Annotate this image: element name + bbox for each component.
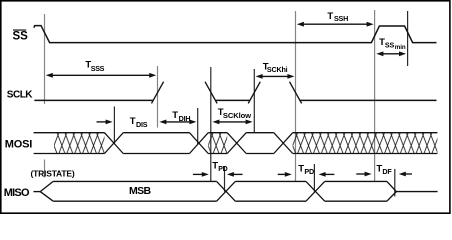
node guide line L8 (SS rising edge) (374, 10, 376, 181)
wire MISO bottom rail (53, 200, 387, 202)
node MISO bus open (40, 181, 53, 201)
node MISO bus close (387, 181, 396, 201)
node MOSI crossover X1 (105, 133, 124, 154)
svg-text:T: T (327, 11, 333, 22)
node tick T1 (MOSI transition 1) (113, 107, 115, 145)
wire MOSI bottom rail (34, 153, 438, 155)
svg-text:SCKhi: SCKhi (267, 65, 288, 74)
svg-text:SS: SS (385, 41, 395, 50)
svg-text:SCKlow: SCKlow (223, 111, 251, 120)
svg-text:DIS: DIS (136, 120, 148, 129)
arrow T_SSH dimension (301, 23, 370, 25)
node guide line L2 (SCLK first rising edge) (157, 66, 159, 128)
svg-text:MSB: MSB (129, 185, 152, 197)
wire SCLK falling edge 1 (205, 82, 217, 104)
wire SCLK rising edge 1 (152, 82, 164, 104)
node MOSI hatch region 2 (208, 133, 227, 154)
arrow T_PD1 pointers (193, 173, 204, 175)
node MOSI crossover X2 (190, 133, 209, 154)
arrow T_SSmin dimension (380, 53, 402, 55)
svg-text:T: T (298, 164, 304, 175)
svg-text:DF: DF (382, 167, 392, 176)
node tick T5 (MISO release) (394, 169, 396, 197)
node MOSI hatch region 1 (54, 133, 105, 154)
svg-text:MOSI: MOSI (5, 138, 32, 150)
node tick L3 (SCLK falling edge 1) (210, 67, 212, 182)
wire SCLK low segment 1 (34, 99, 153, 101)
arrow T_SCKhi dimension (259, 75, 291, 77)
wire MISO tail (396, 191, 437, 193)
node MOSI crossover X3 (227, 133, 246, 154)
svg-text:SS: SS (13, 31, 29, 43)
svg-text:(TRISTATE): (TRISTATE) (31, 168, 75, 178)
node guide line L5 (SCLK last falling edge) (295, 11, 297, 181)
node MOSI crossover X4 (274, 133, 293, 154)
svg-text:T: T (172, 110, 178, 121)
wire SCLK low segment 3 (300, 99, 437, 101)
node tick L10 (SS falling edge 2) (407, 11, 409, 66)
arrow T_PD2 pointers (278, 173, 287, 175)
wire MISO top rail (53, 180, 387, 182)
arrow T_DF pointers (356, 173, 366, 175)
svg-text:SSS: SSS (91, 64, 105, 73)
node MOSI hatch region 3 (293, 133, 438, 154)
svg-text:MISO: MISO (4, 187, 30, 199)
node MISO crossover X2 (306, 181, 325, 201)
wire SCLK rising edge 2 (248, 82, 260, 104)
svg-text:min: min (395, 44, 406, 51)
node tick T4 (MISO transition 2) (313, 164, 315, 192)
node guide line L1 (SS falling edge) (44, 14, 46, 104)
wire SCLK low segment 2 (216, 99, 251, 101)
svg-text:SSH: SSH (334, 14, 348, 23)
node MISO crossover X1 (217, 181, 236, 201)
arrow T_DIS left pointer (97, 121, 108, 123)
node tick L4 (SCLK rising edge 2) (253, 69, 255, 133)
svg-text:PD: PD (304, 167, 314, 176)
arrow T_SSS dimension (49, 74, 153, 76)
node tick T2 (MOSI transition 2) (197, 108, 199, 144)
wire SCLK falling edge 2 (290, 82, 302, 104)
wire MOSI top rail (34, 132, 438, 134)
svg-text:T: T (130, 116, 136, 127)
arrow T_DIH dimension (163, 121, 193, 123)
svg-text:PD: PD (218, 166, 227, 173)
node tick T3 (MISO transition 1) (224, 166, 226, 192)
wire MISO tristate lead (33, 191, 40, 193)
svg-text:T: T (212, 160, 218, 171)
svg-text:SCLK: SCLK (7, 90, 34, 101)
svg-text:DIH: DIH (179, 114, 191, 123)
arrow T_SCKlow dimension (216, 121, 249, 123)
wire SS waveform (34, 26, 437, 43)
